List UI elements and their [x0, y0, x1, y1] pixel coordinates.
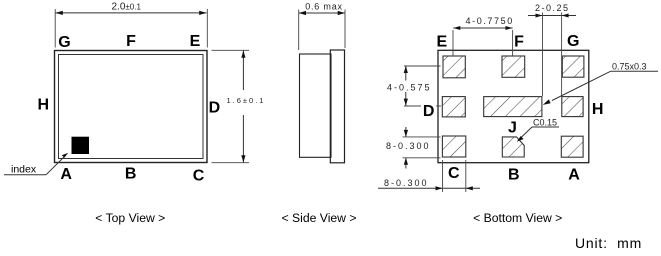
side view lid rectangle — [330, 50, 344, 163]
dimension 8-0.300 left line below — [405, 158, 407, 169]
svg-text:Unit: mm: Unit: mm — [575, 235, 642, 251]
pad G (top-right) — [562, 56, 584, 77]
dimension line 4-0.575 upper segment — [405, 66, 407, 81]
svg-text:F: F — [514, 33, 524, 50]
pad B (bottom-center, chamfered corner) — [502, 137, 524, 157]
svg-text:2.0±0.1: 2.0±0.1 — [112, 2, 142, 13]
C0.15 underline — [532, 126, 559, 128]
dimension line 0.6 — [299, 12, 345, 14]
arrow left of 0.6 dim — [299, 11, 306, 15]
svg-text:0.6 max: 0.6 max — [305, 2, 343, 12]
arrow top of 1.6 dim — [241, 51, 245, 58]
extension line bottom of 1.6 dim — [212, 162, 250, 164]
dimension 1.6±0.1 vertical line upper segment — [242, 51, 244, 91]
svg-text:< Top View >: < Top View > — [95, 211, 165, 225]
pad C (bottom-left) — [442, 136, 465, 157]
svg-text:E: E — [436, 33, 447, 50]
svg-text:A: A — [60, 166, 72, 183]
extension line left of 2-0.25 (to pad J corner) — [542, 13, 544, 97]
svg-text:8-0.300: 8-0.300 — [384, 178, 429, 188]
svg-text:F: F — [126, 33, 136, 50]
extension line pad C bottom — [403, 157, 441, 159]
extension line right of 0.6 dim — [344, 10, 346, 49]
svg-text:C: C — [448, 165, 460, 182]
svg-text:0.75x0.3: 0.75x0.3 — [612, 62, 647, 72]
extension line right of 2.0 dim — [206, 9, 208, 48]
arrow right of 2.0 dim — [199, 11, 206, 15]
arrow bottom of 4-0.575 — [404, 99, 408, 106]
extension line left of 4-0.7750 — [452, 30, 454, 56]
pad J (center crystal pad) — [484, 97, 542, 117]
extension line pad C top — [403, 136, 441, 138]
svg-text:D: D — [209, 99, 221, 116]
dimension line 2-0.25 — [528, 15, 576, 17]
arrow bottom of 1.6 dim — [241, 155, 245, 162]
svg-text:C: C — [193, 168, 205, 185]
index leader diagonal — [46, 157, 65, 175]
arrow top of 4-0.575 — [404, 66, 408, 73]
dimension 8-0.300 bottom line — [378, 187, 480, 189]
svg-text:H: H — [38, 96, 50, 113]
dimension 1.6±0.1 vertical line lower segment — [242, 115, 244, 163]
index mark (black square) — [72, 137, 90, 154]
svg-text:< Bottom View >: < Bottom View > — [473, 211, 562, 225]
arrow left of 2.0 dim — [56, 11, 63, 15]
extension line left of 0.6 dim — [298, 10, 300, 51]
extension line bottom right stub of 4-0.575 — [436, 105, 441, 107]
0.75x0.3 underline — [611, 70, 659, 72]
arrow right of 4-0.7750 — [506, 26, 513, 30]
svg-text:B: B — [508, 166, 520, 183]
svg-text:index: index — [11, 164, 37, 176]
svg-text:C0.15: C0.15 — [533, 118, 557, 128]
dimension line 2.0 — [56, 12, 207, 14]
svg-text:H: H — [592, 101, 604, 118]
package outer body rectangle (top view) — [55, 51, 208, 163]
svg-text:D: D — [423, 103, 435, 120]
dimension 8-0.300 left line above — [405, 127, 407, 137]
svg-text:J: J — [508, 119, 517, 136]
extension line pad C right edge down — [465, 160, 467, 192]
extension line top of 1.6 dim — [212, 49, 250, 51]
extension line right of 4-0.7750 — [512, 30, 514, 56]
svg-text:1.6±0.1: 1.6±0.1 — [227, 96, 266, 105]
index leader underline — [4, 174, 46, 176]
package inner lid rectangle (top view) — [59, 55, 204, 159]
extension line right of 2-0.25 (to pad H corner) — [561, 13, 563, 97]
arrow left outside of 2-0.25 — [536, 14, 543, 18]
arrow pointing down at pad C top — [404, 130, 408, 137]
svg-text:8-0.300: 8-0.300 — [386, 141, 431, 151]
dimension line 4-0.7750 — [453, 27, 512, 29]
arrow left of 4-0.7750 — [453, 26, 460, 30]
extension line left of 2.0 dim — [54, 9, 56, 48]
bottom view outline rectangle — [438, 50, 589, 162]
side view body rectangle — [300, 54, 332, 157]
svg-text:A: A — [568, 166, 580, 183]
pad H (middle-right) — [562, 97, 583, 117]
arrow right outside of 2-0.25 — [562, 14, 569, 18]
C0.15 leader arrow — [517, 136, 524, 142]
pad A (bottom-right) — [561, 136, 583, 157]
arrow right of 0.6 dim — [338, 11, 345, 15]
arrow pointing left at pad C right edge — [466, 186, 473, 190]
svg-text:B: B — [125, 166, 137, 183]
pad F (top-center) — [502, 56, 525, 77]
extension line pad C left edge down — [442, 160, 444, 192]
svg-text:4-0.575: 4-0.575 — [387, 82, 432, 92]
extension line top of 4-0.575 — [404, 65, 441, 67]
index leader arrow — [62, 153, 68, 158]
svg-text:< Side View >: < Side View > — [282, 211, 357, 225]
svg-text:2-0.25: 2-0.25 — [535, 3, 570, 13]
svg-text:G: G — [567, 33, 579, 50]
pad E (top-left) — [443, 56, 465, 78]
0.75x0.3 leader arrow — [543, 99, 551, 105]
svg-text:E: E — [190, 33, 201, 50]
arrow pointing up at pad C bottom — [404, 158, 408, 165]
svg-text:4-0.7750: 4-0.7750 — [466, 16, 514, 26]
C0.15 leader line — [520, 127, 532, 139]
dimension line 4-0.575 lower segment — [405, 92, 407, 106]
pad D (middle-left) — [442, 97, 465, 117]
extension line bottom of 4-0.575 — [404, 105, 421, 107]
arrow pointing right at pad C left edge — [436, 186, 443, 190]
0.75x0.3 leader line — [552, 71, 611, 100]
svg-text:G: G — [58, 34, 70, 51]
